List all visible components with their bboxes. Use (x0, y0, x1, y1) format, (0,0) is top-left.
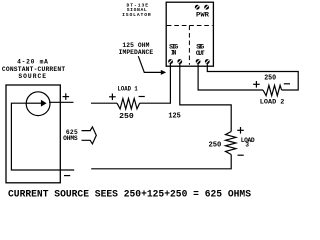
wire load3 bottom return (91, 155, 231, 169)
label 125 OHM IMPEDANCE (119, 42, 154, 56)
internal dashed divider horizontal (167, 25, 213, 27)
wire sig in A down (169, 64, 171, 104)
label 625 OHMS (63, 129, 78, 142)
svg-text:LOAD 2: LOAD 2 (260, 99, 285, 106)
svg-text:250: 250 (264, 74, 276, 82)
svg-text:SOURCE: SOURCE (18, 73, 46, 80)
label SIG IN (169, 44, 178, 57)
wire sig in B down (180, 64, 231, 132)
svg-text:CURRENT SOURCE SEES 250+125+25: CURRENT SOURCE SEES 250+125+250 = 625 OH… (8, 188, 251, 199)
SIG IN terminal B (177, 59, 182, 64)
PWR terminal 1 (195, 5, 200, 10)
label LOAD 3 (241, 137, 255, 149)
resistor LOAD1 250 (117, 99, 140, 109)
svg-text:OUT: OUT (196, 50, 205, 57)
SIG IN terminal A (168, 59, 173, 64)
label SIG OUT (196, 44, 205, 58)
hollow arrow 625 ohms (82, 127, 97, 144)
node load3 plus (237, 127, 244, 134)
wire sig out B right loop (207, 64, 298, 91)
node source plus (63, 93, 70, 100)
SIG OUT terminal A (196, 59, 201, 64)
svg-text:IN: IN (171, 50, 177, 57)
svg-text:ISOLATOR: ISOLATOR (122, 12, 151, 18)
label DT-13E SIGNAL ISOLATOR (122, 2, 151, 17)
node load3 minus (238, 154, 244, 156)
node load1 minus (139, 96, 145, 98)
internal dashed divider vertical (188, 26, 190, 65)
wire sig out A down-right (198, 64, 263, 91)
svg-text:250: 250 (208, 141, 221, 149)
resistor LOAD3 250 (226, 132, 236, 155)
wire source plus stub (49, 101, 74, 103)
node load2 plus (253, 81, 260, 88)
svg-text:250: 250 (119, 113, 134, 121)
svg-text:125 OHM: 125 OHM (122, 42, 149, 49)
node source minus (64, 175, 70, 177)
wire source internal left (11, 103, 74, 170)
isolator box U1 (166, 2, 213, 66)
svg-text:IMPEDANCE: IMPEDANCE (119, 49, 154, 56)
node load2 minus (284, 83, 290, 85)
resistor LOAD2 250 (263, 85, 282, 95)
svg-text:LOAD 1: LOAD 1 (118, 86, 138, 93)
current source CS1 (26, 92, 50, 116)
svg-text:4-20 mA: 4-20 mA (17, 58, 48, 65)
label 4-20 mA CONSTANT-CURRENT SOURCE (2, 58, 65, 80)
wire plus to load1 (91, 102, 117, 104)
current source box (6, 85, 60, 183)
svg-text:125: 125 (168, 113, 180, 121)
wire load1 to sig in A (140, 102, 171, 104)
SIG OUT terminal B (205, 59, 210, 64)
svg-text:PWR: PWR (196, 11, 209, 19)
svg-text:OHMS: OHMS (63, 135, 78, 142)
svg-text:3: 3 (245, 142, 249, 149)
impedance callout arrow (138, 56, 166, 75)
PWR terminal 2 (204, 5, 209, 10)
node load1 plus (109, 94, 116, 101)
